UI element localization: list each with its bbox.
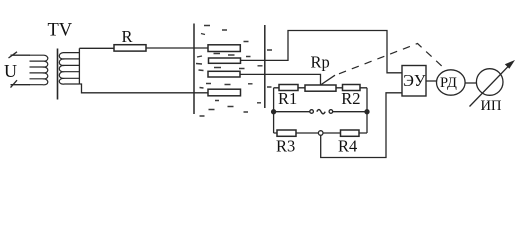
sensor plate 2 xyxy=(209,58,241,63)
tilde AC symbol xyxy=(317,110,325,114)
Rp wiper arrow xyxy=(321,75,336,85)
bridge middle rail xyxy=(274,111,367,113)
mechanical link dashed xyxy=(339,44,446,74)
instrument circle xyxy=(476,69,503,96)
input terminal lower slash xyxy=(11,80,18,87)
svg-text:R3: R3 xyxy=(276,137,295,156)
wire motor to instrument xyxy=(465,82,476,84)
junction node left xyxy=(272,110,276,114)
sensor plate 3 xyxy=(208,71,240,77)
sensor left boundary xyxy=(193,24,195,115)
potentiometer Rp body xyxy=(305,85,336,91)
motor circle xyxy=(437,70,466,95)
svg-text:R1: R1 xyxy=(278,89,297,108)
input terminal lower wire xyxy=(11,84,31,86)
resistor R xyxy=(114,45,146,51)
amplifier box xyxy=(402,66,426,97)
wire plate3 to Rp wiper xyxy=(240,74,321,85)
supply terminal left xyxy=(310,110,314,114)
wire amplifier to motor xyxy=(426,80,437,82)
sensor plate 4 xyxy=(208,89,241,96)
svg-text:TV: TV xyxy=(48,21,73,41)
junction node right xyxy=(365,110,369,114)
wire R to plate1 xyxy=(146,47,208,49)
resistor R4 xyxy=(341,130,360,136)
input terminal upper wire xyxy=(11,54,31,56)
svg-text:ИП: ИП xyxy=(481,98,502,114)
medium dashes xyxy=(196,26,272,117)
wire bridge output to amplifier lower input xyxy=(321,93,402,158)
wire secondary bottom to plate4 xyxy=(79,84,208,93)
sensor plate 1 xyxy=(208,45,240,52)
supply terminal right xyxy=(329,110,333,114)
bridge top wire xyxy=(274,87,367,89)
svg-text:R4: R4 xyxy=(338,137,357,156)
wire plate2 to amplifier upper input xyxy=(241,31,403,73)
transformer core xyxy=(57,49,59,100)
sensor right boundary xyxy=(264,25,266,108)
svg-text:R: R xyxy=(122,27,133,46)
svg-text:U: U xyxy=(4,61,17,81)
resistor R1 xyxy=(279,85,298,91)
bridge right rail xyxy=(366,88,368,133)
svg-text:РД: РД xyxy=(440,75,457,91)
instrument arrow xyxy=(470,65,511,107)
resistor R2 xyxy=(343,85,361,91)
wire secondary top to R xyxy=(79,47,114,49)
input terminal upper slash xyxy=(9,52,18,58)
output terminal circle xyxy=(318,131,323,136)
svg-text:R2: R2 xyxy=(341,89,360,108)
resistor R3 xyxy=(277,130,296,136)
svg-text:ЭУ: ЭУ xyxy=(403,71,426,90)
bridge left rail xyxy=(273,88,275,133)
transformer TV secondary winding xyxy=(59,48,79,84)
transformer TV primary winding xyxy=(30,55,48,85)
bridge bottom wire xyxy=(274,132,367,134)
svg-text:Rp: Rp xyxy=(311,52,330,71)
